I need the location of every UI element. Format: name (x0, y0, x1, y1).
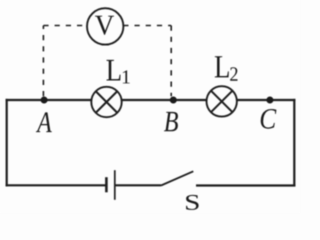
dashed wire down to node B (170, 26, 172, 97)
wire bottom middle (battery to switch) (115, 184, 161, 186)
dashed wire from voltmeter right (123, 25, 171, 27)
node A (41, 97, 48, 104)
node B (170, 97, 177, 104)
label L1 subscript 1 (123, 70, 130, 83)
lamp L1 (91, 87, 121, 117)
switch S (161, 171, 193, 185)
label L2 subscript 2 (230, 67, 237, 81)
lamp L2 (207, 86, 237, 116)
battery (106, 170, 114, 200)
dashed wire to voltmeter left (43, 25, 86, 27)
wire top (A-L1-B-L2-C) (6, 99, 296, 101)
label L1 letter L (106, 60, 120, 81)
wire right side (293, 99, 295, 186)
dashed wire from node A up (42, 26, 44, 97)
wire bottom left (to battery) (6, 184, 106, 186)
label A (36, 112, 52, 132)
wire left side (6, 99, 8, 186)
wire bottom right (switch to right corner) (196, 184, 295, 186)
label C (261, 109, 277, 129)
label V (voltmeter) (95, 16, 114, 35)
node C (266, 97, 273, 104)
label B (164, 112, 178, 131)
label L2 letter L (215, 56, 229, 77)
voltmeter V (87, 8, 123, 44)
label S (switch) (186, 195, 199, 210)
